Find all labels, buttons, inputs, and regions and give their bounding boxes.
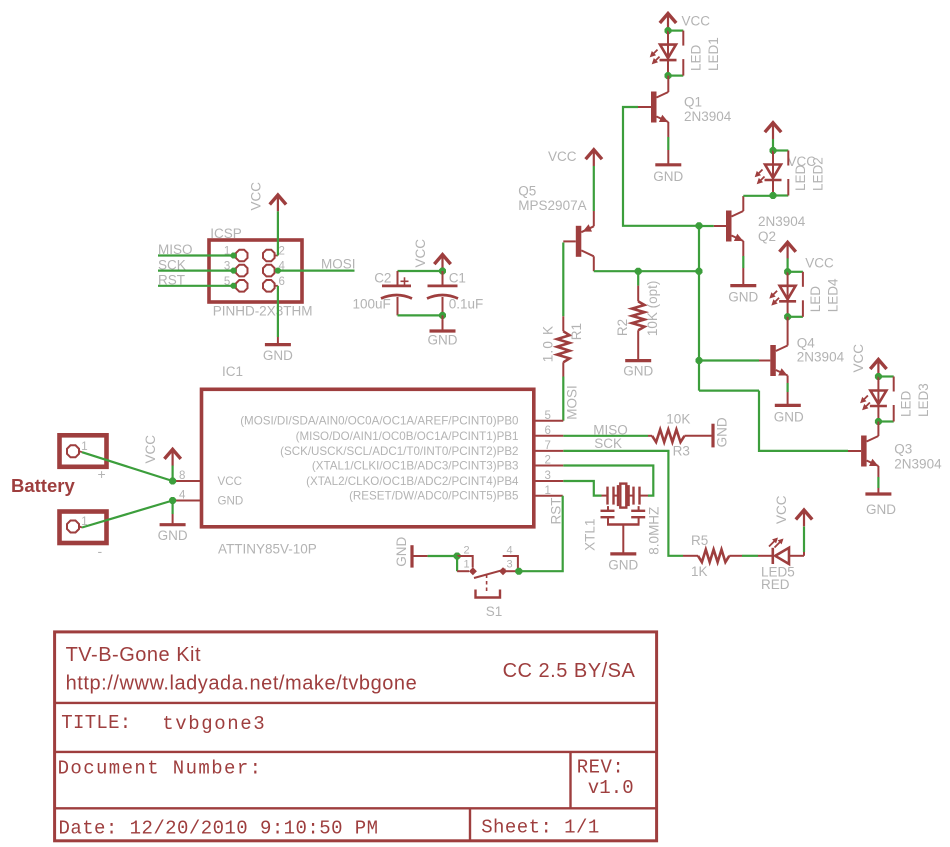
wire Q5 collector net <box>594 256 699 271</box>
transistor Q4 2N3904 <box>770 345 787 376</box>
svg-text:Battery: Battery <box>11 475 75 496</box>
power VCC symbol for LED1 <box>660 14 710 30</box>
pin 8 VCC <box>173 470 202 482</box>
wire Q3 emitter to ground <box>877 466 879 493</box>
wire ICSP VCC stem <box>277 211 279 255</box>
label Sheet <box>481 817 600 839</box>
pin 4 GND <box>173 490 202 502</box>
svg-text:RED: RED <box>761 577 790 592</box>
crystal XTL1 8.0MHZ <box>601 484 649 553</box>
svg-text:TV-B-Gone Kit: TV-B-Gone Kit <box>66 644 201 666</box>
svg-text:2: 2 <box>545 455 551 467</box>
wire Q2 base pin <box>714 225 726 227</box>
svg-text:2N3904: 2N3904 <box>894 457 942 472</box>
label IC1 <box>222 364 243 379</box>
node SCK pin junction <box>231 268 237 274</box>
capacitor C1 0.1uF <box>427 271 458 315</box>
wire pin1 RST net <box>519 496 563 572</box>
label S1 pin 3 <box>507 559 513 571</box>
label S1 pin 2 <box>464 545 470 557</box>
LED LED5 RED <box>758 538 804 565</box>
pad ICSP 6 <box>263 276 285 292</box>
titleblock outer frame <box>55 632 657 841</box>
svg-text:PINHD-2X3THM: PINHD-2X3THM <box>213 304 313 319</box>
wire pin6 to R3 <box>563 435 648 437</box>
svg-text:LED4: LED4 <box>825 278 840 312</box>
node RST pin junction <box>231 283 237 289</box>
svg-text:2: 2 <box>464 545 470 557</box>
label battery minus <box>98 543 103 559</box>
svg-text:VCC: VCC <box>805 256 834 271</box>
svg-text:R5: R5 <box>691 533 708 548</box>
pad ICSP 2 <box>263 246 285 262</box>
label S1 pin 4 <box>507 545 513 557</box>
wire VCC stem battery <box>172 466 174 482</box>
svg-text:(MISO/DO/AIN1/OC0B/OC1A/PCINT1: (MISO/DO/AIN1/OC0B/OC1A/PCINT1)PB1 <box>296 430 519 443</box>
label v1.0 <box>588 777 634 799</box>
label MOSI <box>321 257 356 272</box>
label MOSI net <box>565 385 580 420</box>
label SCK net <box>594 436 622 451</box>
svg-text:R2: R2 <box>615 319 630 336</box>
svg-text:2N3904: 2N3904 <box>797 349 845 364</box>
svg-text:7: 7 <box>545 440 551 452</box>
svg-text:(XTAL1/CLKI/OC1B/ADC3/PCINT3)P: (XTAL1/CLKI/OC1B/ADC3/PCINT3)PB3 <box>312 460 519 473</box>
label LED4 <box>808 278 841 312</box>
wire VCC to LED1 anode <box>667 29 669 32</box>
pin 1 PB5 <box>534 485 563 497</box>
wire Q2 collector net <box>743 196 773 211</box>
wire caps GND stem <box>442 315 444 329</box>
svg-text:C2: C2 <box>374 271 391 286</box>
ground GND ICSP <box>263 345 293 363</box>
svg-text:MOSI: MOSI <box>565 385 580 420</box>
pin 5 PB0 <box>534 410 563 422</box>
IC U IC1 ATTINY85V-10P box <box>202 389 534 527</box>
wire GND stem battery <box>172 501 174 524</box>
wire MISO stub <box>158 254 234 256</box>
label MISO net <box>593 423 628 438</box>
switch S1 right contact <box>499 556 518 575</box>
wire pin3 to crystal <box>563 481 601 496</box>
svg-text:4: 4 <box>507 545 513 557</box>
label C1 <box>449 271 466 286</box>
svg-text:Q5: Q5 <box>518 184 536 199</box>
node bus junction A <box>696 222 703 229</box>
switch S1 left contact <box>457 556 477 575</box>
svg-text:(RESET/DW/ADC0/PCINT5)PB5: (RESET/DW/ADC0/PCINT5)PB5 <box>349 490 518 503</box>
pin 7 PB2 <box>534 440 563 452</box>
svg-text:VCC: VCC <box>548 149 577 164</box>
label Battery <box>11 475 75 496</box>
node battery VCC junction <box>169 478 176 485</box>
label LED2 <box>793 157 826 191</box>
wire GND to S1 <box>428 555 458 557</box>
LED LED1 <box>650 31 677 76</box>
power VCC symbol for LED2 <box>765 123 816 169</box>
node LED4 cathode junction <box>784 313 791 320</box>
connector ICSP PINHD-2X3THM box <box>209 240 302 302</box>
wire LED3 parallel hooks <box>878 377 893 422</box>
label TITLE <box>61 712 131 734</box>
svg-text:LED1: LED1 <box>706 37 721 71</box>
svg-text:ATTINY85V-10P: ATTINY85V-10P <box>218 542 317 557</box>
svg-text:Sheet: 1/1: Sheet: 1/1 <box>481 817 600 839</box>
svg-text:0.1uF: 0.1uF <box>449 297 484 312</box>
power VCC symbol for Q5 <box>548 149 602 166</box>
label R1 value <box>541 325 556 363</box>
resistor R5 1K <box>683 550 742 563</box>
power VCC symbol ICSP <box>249 182 287 212</box>
label LED1 <box>689 37 722 71</box>
switch S1 actuator <box>476 575 501 598</box>
svg-text:5: 5 <box>545 410 551 422</box>
svg-text:1: 1 <box>81 441 87 453</box>
svg-text:-: - <box>98 543 103 559</box>
node LED3 anode junction <box>875 373 882 380</box>
svg-text:GND: GND <box>158 528 188 543</box>
svg-text:TITLE:: TITLE: <box>61 712 131 734</box>
ground GND S1 rotated <box>394 536 428 567</box>
label battery plus <box>98 466 106 482</box>
node LED2 cathode junction <box>770 192 777 199</box>
svg-text:(SCK/USCK/SCL/ADC1/T0/INT0/PCI: (SCK/USCK/SCL/ADC1/T0/INT0/PCINT2)PB2 <box>280 445 518 458</box>
node battery GND junction <box>169 497 176 504</box>
label Q3 <box>894 442 942 472</box>
svg-text:SCK: SCK <box>594 436 622 451</box>
wire pin2 to crystal <box>563 466 653 496</box>
node MOSI pin junction <box>275 268 281 274</box>
wire VCC to Q5 emitter <box>593 166 595 226</box>
svg-text:100uF: 100uF <box>353 297 391 312</box>
svg-text:1K: 1K <box>691 564 708 579</box>
ground GND battery <box>158 525 188 543</box>
ground GND crystal <box>608 554 638 573</box>
wire R5 to LED5 <box>742 555 758 557</box>
LED LED2 <box>755 151 782 196</box>
svg-text:GND: GND <box>394 536 409 566</box>
switch S1 lever <box>474 569 506 578</box>
svg-text:8: 8 <box>179 470 185 482</box>
transistor Q5 MPS2907A <box>576 224 594 256</box>
svg-text:MISO: MISO <box>158 242 193 257</box>
battery terminal + box <box>60 435 107 467</box>
label 8.0MHZ <box>647 507 662 555</box>
svg-text:v1.0: v1.0 <box>588 777 634 799</box>
wire Q1 collector to LED1 <box>667 76 669 92</box>
label Q1 <box>684 95 732 125</box>
node S1 left junction <box>454 553 461 560</box>
label Date <box>59 818 379 840</box>
label R1 <box>569 323 584 340</box>
svg-text:LED: LED <box>808 286 823 313</box>
svg-text:Q1: Q1 <box>684 95 702 110</box>
wire ICSP GND stem <box>277 286 279 344</box>
wire LED2 parallel hooks <box>773 151 788 196</box>
svg-text:R3: R3 <box>673 443 690 458</box>
transistor Q3 2N3904 <box>861 436 878 467</box>
node S1 right junction <box>515 568 522 575</box>
svg-text:6: 6 <box>279 276 285 288</box>
svg-text:Q3: Q3 <box>894 442 912 457</box>
label tvbgone3 <box>162 713 266 735</box>
power VCC symbol for LED4 <box>779 242 834 270</box>
titleblock sheet divider <box>469 808 471 841</box>
label S1 <box>486 604 503 619</box>
label S1 pin 1 <box>464 559 470 571</box>
label ATTINY85V-10P <box>218 542 317 557</box>
wire Q3 collector to LED3 <box>877 422 879 437</box>
svg-text:tvbgone3: tvbgone3 <box>162 713 266 735</box>
ground GND below Q3 <box>865 494 896 517</box>
wire VCC stem to LED3 <box>877 376 879 377</box>
wire MOSI stub <box>278 270 355 272</box>
pad ICSP 5 <box>224 276 248 292</box>
power VCC symbol LED5 <box>774 495 812 526</box>
svg-text:GND: GND <box>263 348 293 363</box>
transistor Q1 2N3904 <box>651 92 668 123</box>
node LED4 anode junction <box>784 268 791 275</box>
label PINHD-2X3THM <box>213 304 313 319</box>
svg-text:1: 1 <box>545 485 551 497</box>
svg-text:GND: GND <box>728 290 758 305</box>
pad ICSP 4 <box>263 261 286 277</box>
svg-text:C1: C1 <box>449 271 466 286</box>
svg-text:R1: R1 <box>569 323 584 340</box>
svg-text:IC1: IC1 <box>222 364 243 379</box>
svg-text:4: 4 <box>179 490 186 502</box>
svg-text:LED2: LED2 <box>811 157 826 191</box>
label LED5 <box>761 565 795 580</box>
node LED1 cathode junction <box>665 72 672 79</box>
svg-text:S1: S1 <box>486 604 503 619</box>
svg-text:VCC: VCC <box>218 475 242 488</box>
svg-text:MPS2907A: MPS2907A <box>518 198 586 213</box>
svg-text:http://www.ladyada.net/make/tv: http://www.ladyada.net/make/tvbgone <box>66 673 418 695</box>
svg-text:RST: RST <box>549 498 564 525</box>
svg-text:GND: GND <box>608 558 638 573</box>
node MISO pin junction <box>231 253 237 259</box>
node LED2 anode junction <box>770 147 777 154</box>
wire LED1 parallel hooks <box>668 31 683 76</box>
svg-text:GND: GND <box>653 169 683 184</box>
node LED1 anode junction <box>665 27 672 34</box>
svg-text:LED: LED <box>793 164 808 191</box>
label R5 <box>691 533 708 548</box>
svg-text:3: 3 <box>545 470 551 482</box>
capacitor C2 100uF <box>381 277 412 315</box>
svg-text:GND: GND <box>866 502 896 517</box>
label RST <box>158 273 185 288</box>
svg-text:ICSP: ICSP <box>210 226 242 241</box>
titleblock row lines <box>55 703 657 808</box>
label LED5 color <box>761 577 790 592</box>
ground GND below R2 <box>623 361 653 379</box>
label R2 <box>615 319 630 336</box>
svg-text:+: + <box>98 466 106 482</box>
wire VCC stem to LED2 <box>772 139 774 151</box>
resistor R3 10K <box>648 430 712 443</box>
wire battery+ to VCC node <box>82 452 173 481</box>
svg-text:CC 2.5 BY/SA: CC 2.5 BY/SA <box>503 660 636 682</box>
label RST net <box>549 498 564 525</box>
svg-text:LED3: LED3 <box>916 383 931 417</box>
wire SCK stub <box>158 270 234 272</box>
wire Q5 base pin <box>563 240 576 242</box>
power VCC symbol battery <box>143 435 181 466</box>
svg-text:LED: LED <box>689 44 704 71</box>
label CC 2.5 BY/SA <box>503 660 636 682</box>
wire Q4 emitter to ground <box>787 376 789 405</box>
resistor R2 10K opt <box>632 271 645 359</box>
label Q4 <box>797 336 845 365</box>
LED LED4 <box>769 272 796 317</box>
svg-text:1: 1 <box>464 559 470 571</box>
svg-text:VCC: VCC <box>774 495 789 524</box>
label IC1 pin names <box>218 415 520 508</box>
label C2 value <box>353 297 391 312</box>
label url <box>66 673 418 695</box>
node caps GND junction <box>439 312 446 319</box>
svg-text:10K (opt): 10K (opt) <box>645 281 660 337</box>
svg-text:6: 6 <box>545 425 551 437</box>
power VCC symbol caps <box>413 239 451 271</box>
wire VCC stem to LED4 <box>786 258 788 272</box>
label Document Number <box>58 758 263 780</box>
svg-text:MOSI: MOSI <box>321 257 356 272</box>
wire Q1 base pin <box>638 106 651 108</box>
wire Q4 base pin <box>759 360 770 362</box>
wire pin7 to R5 net <box>563 451 683 556</box>
wire RST stub <box>158 285 234 287</box>
wire Q4 collector to LED4 <box>787 317 789 346</box>
svg-text:RST: RST <box>158 273 185 288</box>
svg-text:(MOSI/DI/SDA/AIN0/OC0A/OC1A/AR: (MOSI/DI/SDA/AIN0/OC0A/OC1A/AREF/PCINT0)… <box>240 415 518 428</box>
pad ICSP 3 <box>224 261 248 277</box>
ground GND below Q1 <box>653 165 683 184</box>
wire LED5 to VCC <box>803 527 805 556</box>
label REV <box>577 757 624 779</box>
transistor Q2 2N3904 <box>726 211 743 242</box>
pin 6 PB1 <box>534 425 563 437</box>
wire Q3 base net <box>699 391 848 451</box>
pin 2 PB3 <box>534 455 563 467</box>
svg-text:(XTAL2/CLKO/OC1B/ADC2/PCINT4)P: (XTAL2/CLKO/OC1B/ADC2/PCINT4)PB4 <box>306 475 519 488</box>
svg-text:GND: GND <box>428 333 458 348</box>
svg-text:Date: 12/20/2010 9:10:50 PM: Date: 12/20/2010 9:10:50 PM <box>59 818 379 840</box>
label ICSP <box>210 226 242 241</box>
svg-text:3: 3 <box>507 559 513 571</box>
wire Q3 base pin <box>848 450 861 452</box>
svg-text:10K: 10K <box>666 412 690 427</box>
resistor R1 1.0K <box>557 243 570 421</box>
svg-text:Q2: Q2 <box>758 229 776 244</box>
label MISO <box>158 242 193 257</box>
svg-text:VCC: VCC <box>851 344 866 373</box>
label R2 value <box>645 281 660 337</box>
LED LED3 <box>860 377 887 422</box>
node R2 tap junction <box>635 268 642 275</box>
svg-text:VCC: VCC <box>143 435 158 464</box>
wire Q2 emitter to ground <box>742 241 744 284</box>
label Q2 <box>758 214 806 244</box>
svg-text:GND: GND <box>774 409 804 424</box>
pin 3 PB4 <box>534 470 563 482</box>
svg-text:1.0 K: 1.0 K <box>541 325 556 363</box>
svg-text:GND: GND <box>623 364 653 379</box>
ground GND below Q2 <box>728 286 758 305</box>
power VCC symbol for LED3 <box>851 344 887 376</box>
node bus junction C <box>696 357 703 364</box>
wire C2 to C1 bottom <box>398 314 443 316</box>
ground GND caps <box>428 331 458 348</box>
label TV-B-Gone Kit <box>66 644 201 666</box>
ground GND R3 rotated <box>713 417 730 447</box>
node caps VCC junction <box>439 268 446 275</box>
wire Q2 base net <box>699 225 714 227</box>
label XTL1 <box>583 519 598 551</box>
svg-text:2N3904: 2N3904 <box>758 214 806 229</box>
wire VCC to caps <box>398 271 443 285</box>
svg-text:REV:: REV: <box>577 757 624 779</box>
svg-text:2N3904: 2N3904 <box>684 109 732 124</box>
label R3 value <box>666 412 690 427</box>
label LED3 <box>899 383 932 417</box>
svg-text:XTL1: XTL1 <box>583 519 598 551</box>
svg-text:8.0MHZ: 8.0MHZ <box>647 507 662 555</box>
label Q5 <box>518 184 586 214</box>
wire Q1 base net <box>623 107 699 226</box>
svg-text:GND: GND <box>218 495 244 508</box>
label C2 <box>374 271 391 286</box>
wire battery- to GND node <box>82 501 173 528</box>
label SCK <box>158 257 186 272</box>
ground GND below Q4 <box>774 405 804 424</box>
titleblock rev divider <box>569 752 571 808</box>
label C1 value <box>449 297 484 312</box>
label R5 value <box>691 564 708 579</box>
wire Q4 base net <box>699 359 759 361</box>
label R3 <box>673 443 690 458</box>
battery terminal - box <box>60 512 107 544</box>
svg-text:VCC: VCC <box>249 182 264 211</box>
svg-text:LED: LED <box>899 390 914 417</box>
svg-text:Document Number:: Document Number: <box>58 758 263 780</box>
node bus junction B <box>696 268 703 275</box>
svg-text:VCC: VCC <box>682 14 711 29</box>
svg-text:SCK: SCK <box>158 257 186 272</box>
pad ICSP 1 <box>224 246 248 262</box>
wire LED4 parallel hooks <box>788 272 803 317</box>
node LED3 cathode junction <box>875 418 882 425</box>
svg-text:Q4: Q4 <box>797 336 816 351</box>
wire Q1 emitter to ground <box>667 122 669 164</box>
svg-text:VCC: VCC <box>413 239 428 268</box>
svg-text:GND: GND <box>715 417 730 447</box>
wire center bus vertical <box>698 226 700 391</box>
svg-text:2: 2 <box>279 246 285 258</box>
